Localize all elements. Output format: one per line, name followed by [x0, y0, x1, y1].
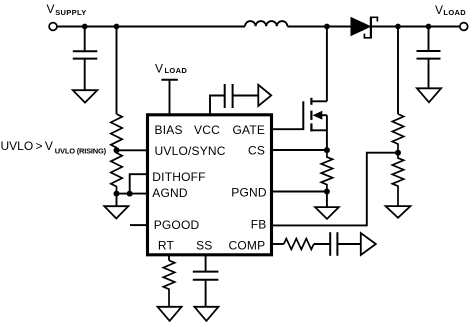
wire UVLO node to UVLO/SYNC pin	[117, 149, 147, 151]
svg-text:UVLO/SYNC: UVLO/SYNC	[155, 144, 226, 158]
off-page arrow (COMP)	[361, 233, 376, 255]
svg-text:V: V	[435, 3, 443, 17]
svg-text:VCC: VCC	[194, 123, 220, 137]
capacitor C_SS	[193, 272, 219, 280]
wire R_COMP to C_COMP	[314, 243, 330, 245]
wire CS stub	[272, 149, 327, 151]
wire inductor to diode	[287, 26, 351, 28]
resistor R_FB_TOP	[392, 114, 403, 153]
node drain tap	[324, 24, 330, 30]
wire COMP stub	[272, 243, 284, 245]
svg-text:CS: CS	[248, 143, 265, 157]
ground (divider)	[386, 206, 411, 218]
svg-text:DITHOFF: DITHOFF	[152, 170, 205, 184]
wire drain to top rail	[326, 27, 328, 102]
svg-text:GATE: GATE	[233, 123, 266, 137]
ground (input cap)	[73, 90, 98, 102]
svg-text:AGND: AGND	[152, 186, 188, 200]
svg-text:UVLO (RISING): UVLO (RISING)	[55, 146, 107, 155]
wire C_SS to ground	[205, 280, 207, 307]
ground (RT)	[158, 307, 182, 321]
wire top rail left (VSUPPLY to inductor)	[57, 26, 245, 28]
svg-text:PGND: PGND	[231, 186, 267, 200]
wire AGND node to ground	[116, 194, 118, 207]
resistor R_UVLO_BOT	[111, 150, 122, 193]
ground (SS)	[194, 307, 218, 321]
svg-text:V: V	[47, 2, 55, 16]
wire COUT to ground	[428, 59, 430, 89]
node output cap tap	[426, 24, 432, 30]
wire VCC riser	[210, 96, 225, 115]
wire DITHOFF stub	[130, 174, 146, 193]
resistor R_COMP	[284, 239, 314, 250]
node AGND junction 2 (DITHOFF tie)	[127, 191, 133, 197]
wire AGND to pin	[117, 193, 147, 195]
wire PGND node to ground	[326, 192, 328, 208]
node input cap tap	[82, 24, 88, 30]
node PGND	[324, 189, 330, 195]
node UVLO divider tap	[114, 24, 120, 30]
transistor Q1 (N-MOSFET)	[303, 98, 327, 132]
capacitor COUT	[417, 51, 441, 59]
wire GATE stub	[272, 128, 304, 130]
wire UVLO divider top	[116, 27, 118, 115]
svg-text:V: V	[155, 62, 163, 76]
off-page arrow (VCC bypass)	[258, 85, 271, 106]
wire COUT branch	[428, 27, 430, 52]
diode D1 (Schottky)	[351, 17, 377, 39]
resistor R_FB_BOT	[392, 153, 403, 206]
capacitor CIN	[73, 51, 98, 58]
node VLOAD (BIAS supply)	[155, 62, 187, 80]
label UVLO threshold	[1, 139, 107, 155]
wire SS pin	[205, 255, 207, 272]
wire divider top	[397, 27, 399, 115]
IC U1 (boost controller)	[148, 115, 272, 255]
terminal VLOAD	[435, 3, 468, 30]
resistor R_UVLO_TOP	[111, 114, 122, 150]
wire PGND stub	[272, 191, 327, 193]
ground (AGND)	[104, 206, 128, 218]
inductor L1	[245, 21, 287, 26]
resistor R_RT	[163, 260, 174, 306]
wire diode to VLOAD terminal	[372, 26, 460, 28]
wire CIN to ground	[84, 59, 86, 91]
terminal VSUPPLY	[47, 2, 87, 30]
node divider tap	[395, 24, 401, 30]
svg-text:SUPPLY: SUPPLY	[55, 8, 86, 17]
svg-text:LOAD: LOAD	[165, 66, 188, 75]
ground (output cap)	[417, 88, 441, 102]
wire PGOOD stub	[130, 224, 146, 226]
svg-text:UVLO > V: UVLO > V	[1, 139, 53, 153]
resistor R_CS	[321, 150, 332, 192]
svg-text:RT: RT	[158, 238, 175, 252]
svg-text:COMP: COMP	[229, 238, 266, 252]
wire RT pin	[168, 255, 170, 261]
node UVLO	[114, 147, 120, 153]
wire CIN branch	[84, 27, 86, 52]
wire VLOAD to BIAS pin	[169, 80, 171, 114]
ground (PGND)	[315, 207, 339, 219]
capacitor C_COMP	[330, 232, 337, 256]
capacitor C_VCC	[225, 84, 233, 108]
svg-text:PGOOD: PGOOD	[154, 218, 200, 232]
node CS	[324, 147, 330, 153]
svg-text:FB: FB	[251, 217, 267, 231]
node FB tap	[395, 150, 401, 156]
wire C_VCC to arrow	[233, 95, 259, 97]
wire FB pin to divider tap	[272, 153, 399, 226]
node AGND junction 1	[114, 191, 120, 197]
svg-text:LOAD: LOAD	[443, 8, 466, 17]
wire source down to CS node	[326, 115, 328, 150]
wire C_COMP to arrow	[337, 243, 360, 245]
svg-text:BIAS: BIAS	[155, 123, 183, 137]
svg-text:SS: SS	[196, 238, 212, 252]
